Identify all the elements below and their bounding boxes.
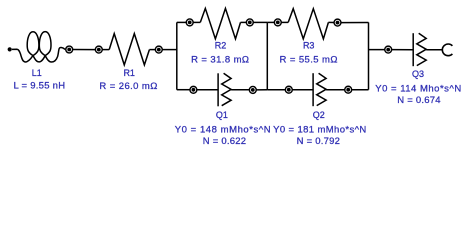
svg-text:L = 9.55 nH: L = 9.55 nH xyxy=(13,81,65,92)
wire Q2 to K xyxy=(326,89,345,91)
node F (Q1 left) xyxy=(190,86,197,93)
node H (R3 left) xyxy=(274,19,281,26)
wire A to B xyxy=(73,49,96,51)
CPE Q3 plate xyxy=(412,33,414,66)
svg-text:N = 0.622: N = 0.622 xyxy=(203,136,246,147)
CPE Q1 plate xyxy=(217,73,219,106)
svg-text:L1: L1 xyxy=(32,68,42,78)
wire D to R2 xyxy=(193,21,200,23)
node I (R3 right) xyxy=(334,19,341,26)
resistor R1 zigzag xyxy=(109,34,149,65)
inductor L1 coil xyxy=(12,32,65,62)
wire middle shared edge vertical xyxy=(266,22,268,89)
wire H to R3 xyxy=(281,21,288,23)
svg-text:Y0 = 148 mMho*s^N: Y0 = 148 mMho*s^N xyxy=(175,125,271,136)
node A (after L1) xyxy=(66,46,73,53)
wire J to Q2 xyxy=(292,89,313,91)
CPE Q2 plate xyxy=(312,73,314,106)
wire R2 to E xyxy=(241,21,247,23)
node K (Q2 right) xyxy=(345,86,352,93)
wire G to middle edge xyxy=(256,89,267,91)
CPE Q3 zigzag xyxy=(417,33,426,65)
CPE Q1 zigzag xyxy=(222,73,231,105)
svg-text:Y0 = 114 Mho*s^N: Y0 = 114 Mho*s^N xyxy=(375,83,461,94)
node D (R2 left) xyxy=(186,19,193,26)
wire B to R1 xyxy=(102,49,109,51)
wire Q1 to G xyxy=(231,89,249,91)
node B (before R1) xyxy=(95,46,102,53)
node G (Q1 right) xyxy=(249,86,256,93)
svg-text:N = 0.792: N = 0.792 xyxy=(297,136,340,147)
wire Q3 to open terminal xyxy=(426,49,442,51)
terminal right open (C arc) xyxy=(442,44,452,56)
wire L to Q3 xyxy=(392,49,414,51)
wire block1 left edge vertical xyxy=(176,22,178,89)
svg-text:Q1: Q1 xyxy=(216,110,228,120)
resistor R3 zigzag xyxy=(288,9,328,39)
wire K to right edge xyxy=(352,89,369,91)
wire F to Q1 xyxy=(197,89,218,91)
node L (before Q3) xyxy=(385,46,392,53)
wire top edge to node D xyxy=(177,21,186,23)
svg-text:R = 26.0 mΩ: R = 26.0 mΩ xyxy=(99,81,157,92)
node C (before parallel blocks) xyxy=(155,46,162,53)
svg-text:R2: R2 xyxy=(215,40,227,50)
svg-text:R = 55.5 mΩ: R = 55.5 mΩ xyxy=(280,55,338,66)
wire R1 to C xyxy=(149,49,155,51)
resistor R2 zigzag xyxy=(200,8,240,39)
node J (Q2 left) xyxy=(285,86,292,93)
node E (R2 right) xyxy=(246,19,253,26)
svg-text:Q2: Q2 xyxy=(313,110,325,120)
svg-text:Q3: Q3 xyxy=(412,69,424,79)
terminal left dot xyxy=(8,47,12,51)
wire E to middle edge xyxy=(253,21,267,23)
svg-text:Y0 = 181 mMho*s^N: Y0 = 181 mMho*s^N xyxy=(273,125,367,136)
svg-text:N = 0.674: N = 0.674 xyxy=(397,95,440,106)
wire left edge to node F xyxy=(177,89,190,91)
svg-text:R = 31.8 mΩ: R = 31.8 mΩ xyxy=(191,55,249,66)
wire right edge to node L xyxy=(369,49,385,51)
wire middle edge to node J xyxy=(267,89,285,91)
wire block2 right edge vertical xyxy=(368,22,370,89)
wire middle edge to node H xyxy=(267,21,274,23)
svg-text:R3: R3 xyxy=(303,41,315,51)
CPE Q2 zigzag xyxy=(317,73,326,105)
wire C to block1 left edge xyxy=(162,49,177,51)
svg-text:R1: R1 xyxy=(123,68,135,78)
wire I to right edge xyxy=(341,22,369,24)
wire R3 to I xyxy=(328,21,334,23)
